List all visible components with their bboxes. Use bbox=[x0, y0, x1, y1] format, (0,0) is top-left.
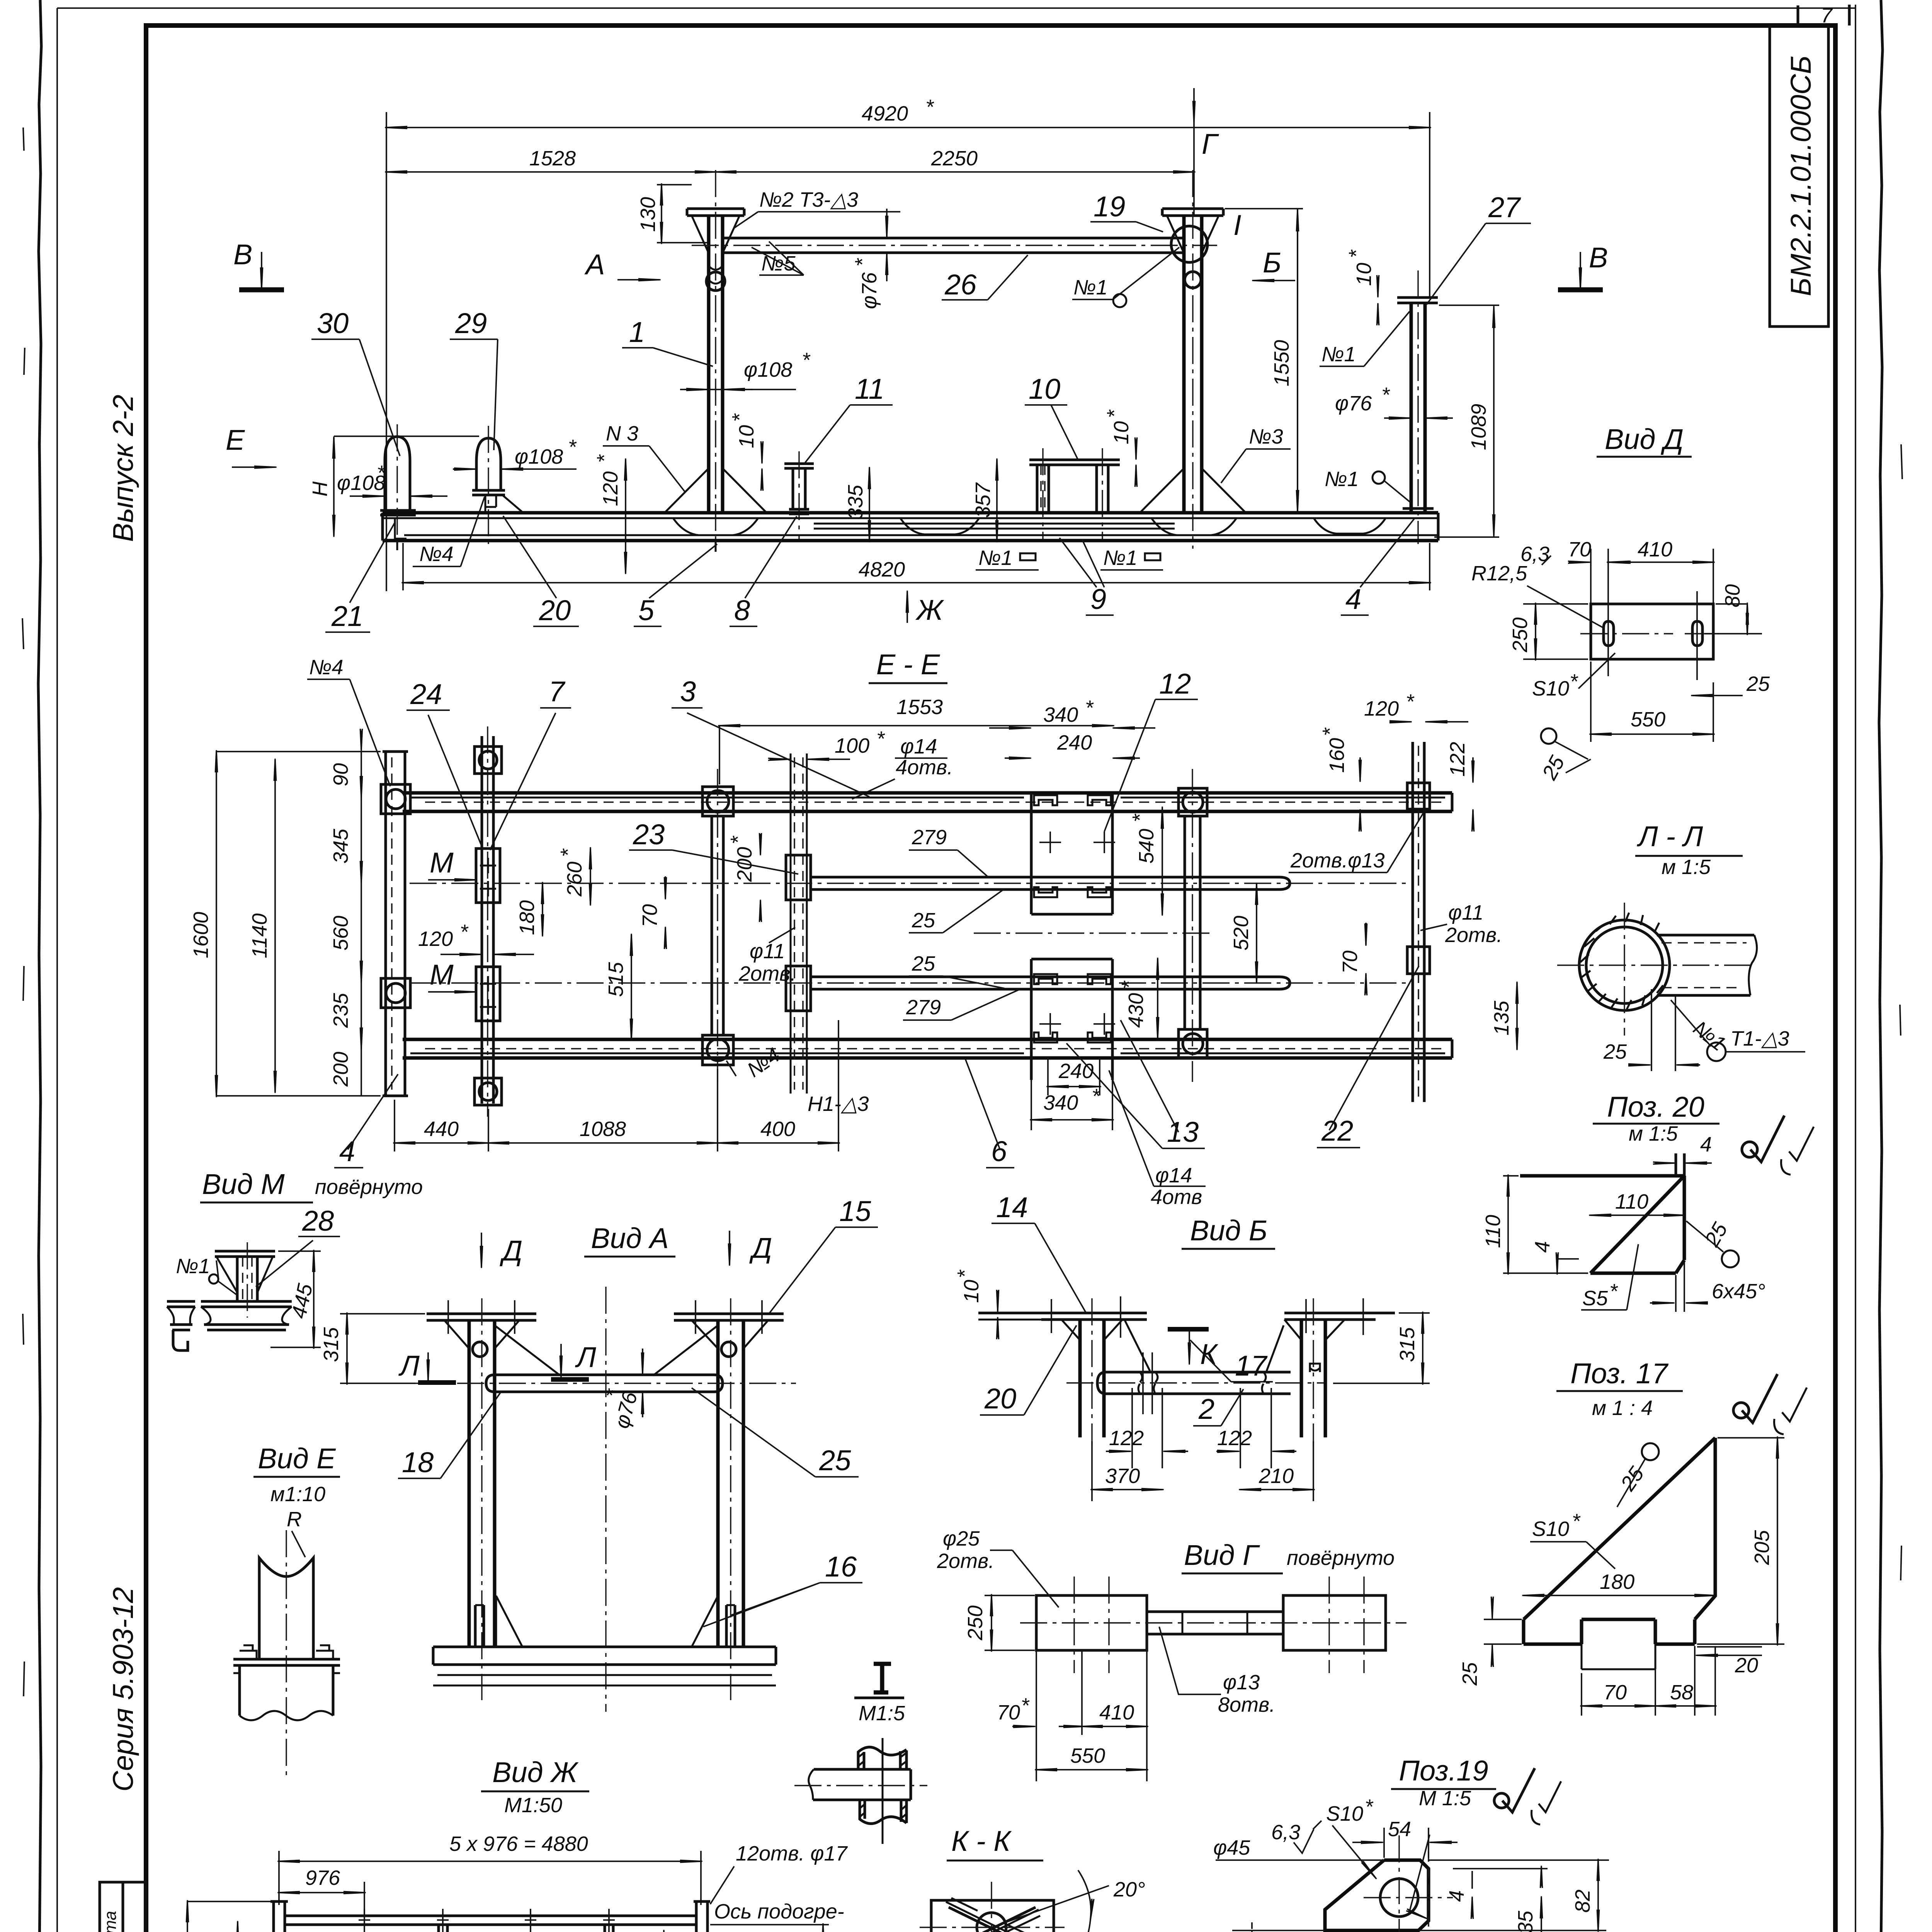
svg-text:2250: 2250 bbox=[931, 147, 978, 170]
rail under bracket bbox=[201, 1301, 292, 1330]
svg-text:240: 240 bbox=[1057, 731, 1092, 754]
lower tube with wavy break bbox=[240, 1665, 333, 1716]
svg-text:18: 18 bbox=[402, 1446, 434, 1478]
post stiffeners bbox=[475, 1605, 735, 1647]
svg-text:Л: Л bbox=[575, 1341, 596, 1373]
svg-text:315: 315 bbox=[320, 1327, 343, 1362]
svg-text:10: 10 bbox=[735, 425, 758, 448]
left margin stamp boxes bbox=[100, 1882, 146, 1932]
left dim 1140 bbox=[274, 760, 276, 1092]
item 27 post flange bbox=[1397, 298, 1438, 303]
right post flange bbox=[1162, 209, 1223, 216]
svg-text:*: * bbox=[1406, 690, 1415, 713]
svg-text:Серия 5.903-12: Серия 5.903-12 bbox=[107, 1587, 139, 1791]
dim 20 bbox=[1697, 1646, 1762, 1648]
bar necks bbox=[1138, 1372, 1266, 1394]
upper pipe walls hatched bbox=[858, 1750, 906, 1769]
item 27 post bbox=[1411, 303, 1425, 513]
svg-text:560: 560 bbox=[329, 916, 352, 951]
connecting bar bbox=[1147, 1612, 1283, 1634]
svg-text:*: * bbox=[1103, 409, 1126, 418]
svg-text:S10: S10 bbox=[1532, 677, 1569, 700]
tie rod clamp blocks M bbox=[476, 849, 500, 903]
svg-text:550: 550 bbox=[1631, 708, 1665, 731]
svg-text:70: 70 bbox=[1568, 538, 1591, 561]
crossing studs bbox=[949, 1907, 1036, 1932]
slots bbox=[1604, 621, 1702, 646]
svg-text:4: 4 bbox=[1445, 1890, 1468, 1902]
svg-text:φ25: φ25 bbox=[943, 1527, 980, 1550]
svg-text:S10: S10 bbox=[1326, 1802, 1363, 1825]
roughness marks bbox=[1750, 1116, 1784, 1162]
bonnet item 30 bbox=[385, 437, 410, 510]
bracket top plate bbox=[215, 1251, 275, 1257]
svg-text:15: 15 bbox=[839, 1195, 871, 1227]
svg-text:4920: 4920 bbox=[862, 102, 908, 125]
svg-text:*: * bbox=[953, 1269, 976, 1278]
svg-text:410: 410 bbox=[1099, 1701, 1134, 1724]
svg-text:29: 29 bbox=[455, 307, 487, 339]
svg-text:φ108: φ108 bbox=[744, 358, 792, 381]
sheet number box top right bbox=[1798, 5, 1849, 26]
dim H bbox=[334, 435, 479, 437]
svg-text:1: 1 bbox=[629, 316, 645, 348]
scan edge left wavy line bbox=[38, 0, 41, 1932]
lower fork plate (item 13) bbox=[1031, 959, 1112, 1080]
svg-text:20: 20 bbox=[539, 594, 571, 626]
svg-text:φ14: φ14 bbox=[1155, 1164, 1192, 1187]
dim 1550 bbox=[1225, 209, 1303, 513]
hole bbox=[1380, 1879, 1418, 1917]
svg-text:2отв.φ13: 2отв.φ13 bbox=[1290, 849, 1385, 872]
gusset plate bbox=[1524, 1438, 1715, 1644]
svg-text:25: 25 bbox=[912, 909, 935, 932]
svg-text:φ11: φ11 bbox=[1448, 901, 1483, 924]
svg-text:100: 100 bbox=[835, 734, 869, 757]
svg-text:1528: 1528 bbox=[529, 147, 576, 170]
svg-text:70: 70 bbox=[638, 904, 662, 927]
dim 82 bbox=[1597, 1860, 1599, 1930]
gussets at right post base bbox=[1140, 468, 1246, 513]
svg-text:вателя: вателя bbox=[714, 1925, 787, 1932]
svg-text:10: 10 bbox=[960, 1280, 983, 1303]
svg-text:φ13: φ13 bbox=[1223, 1671, 1260, 1694]
dims 70* 410 550 bbox=[1036, 1634, 1147, 1781]
svg-text:5 х 976 = 4880: 5 х 976 = 4880 bbox=[449, 1832, 588, 1855]
svg-text:*: * bbox=[1085, 696, 1094, 719]
dim 1089 bbox=[1434, 305, 1499, 537]
dim 1088 bbox=[663, 1931, 665, 1932]
svg-text:122: 122 bbox=[1109, 1427, 1144, 1450]
right tie rod (item 22) bbox=[1413, 742, 1424, 1102]
svg-text:200: 200 bbox=[329, 1052, 352, 1087]
horizontal tube bbox=[813, 1769, 911, 1800]
svg-text:φ11: φ11 bbox=[750, 940, 785, 963]
item 5 vertical bbox=[1185, 816, 1200, 1029]
svg-text:№4: №4 bbox=[419, 543, 454, 566]
left post (item 1) bbox=[709, 216, 723, 513]
svg-text:120: 120 bbox=[599, 471, 622, 506]
svg-text:6х45°: 6х45° bbox=[1712, 1280, 1765, 1303]
svg-text:180: 180 bbox=[515, 900, 539, 935]
svg-text:430: 430 bbox=[1124, 993, 1148, 1028]
right post tube junction circles bbox=[1171, 226, 1207, 262]
svg-text:2отв.: 2отв. bbox=[738, 962, 796, 985]
svg-text:10: 10 bbox=[1352, 263, 1376, 286]
svg-text:Ось подогре-: Ось подогре- bbox=[714, 1900, 844, 1923]
svg-text:550: 550 bbox=[1070, 1744, 1105, 1767]
crosshair bbox=[1557, 903, 1750, 1036]
svg-text:Ж: Ж bbox=[915, 594, 944, 626]
svg-text:976: 976 bbox=[305, 1866, 340, 1889]
svg-text:12отв. φ17: 12отв. φ17 bbox=[736, 1842, 848, 1865]
dim 335 bbox=[869, 468, 870, 541]
left dim 1600 bbox=[216, 752, 217, 1096]
top rail (item 3) bbox=[403, 793, 1452, 811]
svg-text:28: 28 bbox=[302, 1205, 334, 1237]
left flange bbox=[427, 1314, 536, 1320]
svg-text:122: 122 bbox=[1446, 742, 1469, 777]
svg-text:S5: S5 bbox=[1582, 1287, 1608, 1310]
svg-text:М 1:5: М 1:5 bbox=[1419, 1787, 1471, 1810]
dim 2250 bbox=[716, 171, 1194, 173]
svg-text:4: 4 bbox=[1345, 583, 1361, 615]
svg-text:В: В bbox=[1589, 241, 1608, 274]
svg-text:повёрнуто: повёрнуто bbox=[1287, 1546, 1395, 1570]
mark Ж bbox=[906, 592, 908, 623]
svg-text:279: 279 bbox=[912, 826, 947, 849]
svg-text:К - К: К - К bbox=[951, 1825, 1012, 1857]
big gussets to tube bbox=[495, 1325, 718, 1376]
svg-text:М: М bbox=[430, 847, 454, 879]
base plate bbox=[433, 1647, 776, 1665]
left flange bbox=[978, 1313, 1147, 1320]
svg-text:25: 25 bbox=[1458, 1662, 1481, 1686]
upper heater tubes bbox=[811, 877, 1290, 889]
left cross channel (item 4) bbox=[383, 752, 408, 1096]
svg-text:Вид Б: Вид Б bbox=[1190, 1214, 1267, 1247]
svg-text:250: 250 bbox=[1509, 617, 1532, 653]
svg-text:*: * bbox=[728, 413, 751, 422]
svg-text:*: * bbox=[460, 920, 469, 944]
blocks item 23 bbox=[786, 855, 811, 900]
svg-text:82: 82 bbox=[1571, 1889, 1594, 1913]
svg-text:*: * bbox=[1345, 249, 1368, 258]
svg-text:27: 27 bbox=[1488, 191, 1521, 223]
svg-text:№1: №1 bbox=[1321, 343, 1356, 366]
centerlines bbox=[1020, 1622, 1406, 1623]
tube entering from right bbox=[1657, 935, 1754, 995]
svg-text:20: 20 bbox=[1735, 1654, 1758, 1677]
svg-text:110: 110 bbox=[1615, 1190, 1648, 1213]
crosshair bbox=[920, 1882, 1065, 1932]
left rail stub bbox=[167, 1301, 195, 1330]
svg-text:520: 520 bbox=[1230, 916, 1253, 951]
svg-text:φ45: φ45 bbox=[1213, 1836, 1250, 1859]
svg-text:Поз.19: Поз.19 bbox=[1399, 1755, 1488, 1787]
scan left tick artifacts bbox=[22, 128, 25, 1932]
right post bbox=[1301, 1320, 1325, 1437]
plate bbox=[1520, 1176, 1684, 1273]
flange gussets bbox=[444, 1320, 768, 1349]
svg-text:Д: Д bbox=[500, 1235, 522, 1267]
svg-text:№1: №1 bbox=[1325, 468, 1359, 491]
svg-text:22: 22 bbox=[1321, 1115, 1353, 1147]
svg-text:235: 235 bbox=[329, 993, 352, 1028]
bottom rail bbox=[403, 1039, 1452, 1058]
small weld symbol on bar bbox=[1310, 1364, 1320, 1372]
svg-text:70: 70 bbox=[997, 1701, 1020, 1724]
left flange plate bbox=[270, 1901, 288, 1932]
svg-text:250: 250 bbox=[964, 1605, 987, 1641]
svg-text:м1:10: м1:10 bbox=[270, 1483, 325, 1506]
svg-text:410: 410 bbox=[1638, 538, 1672, 561]
svg-text:21: 21 bbox=[331, 600, 363, 632]
left channel pads with holes bbox=[381, 784, 410, 814]
scan edge right wavy line bbox=[1879, 0, 1883, 1932]
svg-text:315: 315 bbox=[1396, 1327, 1419, 1362]
lower heater tubes bbox=[811, 977, 1290, 989]
svg-text:10: 10 bbox=[1029, 373, 1060, 405]
svg-text:3: 3 bbox=[680, 675, 696, 707]
svg-text:120: 120 bbox=[1364, 697, 1399, 720]
right post bbox=[718, 1320, 743, 1647]
left post break wave bbox=[709, 266, 723, 284]
svg-text:440: 440 bbox=[424, 1117, 459, 1141]
svg-text:Вид Ж: Вид Ж bbox=[492, 1756, 579, 1788]
svg-text:N 3: N 3 bbox=[606, 422, 638, 445]
svg-text:14: 14 bbox=[996, 1191, 1028, 1223]
svg-text:*: * bbox=[1117, 980, 1141, 989]
crosshairs bbox=[1364, 1835, 1453, 1932]
svg-text:Г: Г bbox=[1202, 128, 1219, 160]
svg-text:*: * bbox=[1318, 727, 1342, 736]
svg-text:№4: №4 bbox=[309, 656, 344, 679]
dim 180 bbox=[1524, 1595, 1715, 1596]
svg-text:180: 180 bbox=[1600, 1570, 1634, 1594]
dim 35 right bbox=[1418, 1869, 1548, 1932]
svg-text:110: 110 bbox=[1481, 1215, 1505, 1248]
document number strip (rotated) bbox=[1770, 26, 1828, 327]
svg-text:5: 5 bbox=[638, 594, 655, 626]
dim 445 bbox=[270, 1251, 321, 1347]
svg-text:54: 54 bbox=[1388, 1818, 1411, 1841]
left post flange bbox=[687, 209, 744, 216]
svg-text:повёрнуто: повёрнуто bbox=[315, 1175, 423, 1199]
bracket gusset bbox=[216, 1257, 273, 1293]
right post bbox=[1184, 216, 1202, 513]
dim 110 inner bbox=[1590, 1214, 1684, 1216]
rail top lines bbox=[383, 511, 1438, 515]
svg-text:№1: №1 bbox=[1103, 546, 1138, 570]
svg-text:S10: S10 bbox=[1532, 1517, 1569, 1541]
svg-text:М1:50: М1:50 bbox=[504, 1794, 562, 1817]
rail bottom lines bbox=[404, 534, 1438, 536]
svg-text:*: * bbox=[568, 435, 577, 459]
svg-text:1089: 1089 bbox=[1467, 404, 1490, 450]
rail ends bbox=[383, 513, 1438, 541]
svg-text:Т1-△3: Т1-△3 bbox=[1730, 1027, 1789, 1050]
section mark Г bbox=[1193, 88, 1195, 122]
ring hatch bbox=[1580, 913, 1663, 1009]
svg-text:4отв: 4отв bbox=[1151, 1185, 1202, 1209]
dim 4920* bbox=[386, 127, 1430, 128]
svg-text:25: 25 bbox=[819, 1444, 851, 1476]
svg-text:φ76: φ76 bbox=[1335, 392, 1372, 415]
stub item 11 bbox=[784, 464, 814, 468]
svg-text:2отв.: 2отв. bbox=[937, 1549, 994, 1573]
svg-text:*: * bbox=[1128, 813, 1151, 822]
lower pipe walls hatched bbox=[860, 1800, 906, 1823]
mark I bbox=[874, 1664, 891, 1692]
svg-text:30: 30 bbox=[317, 307, 349, 339]
dim 130 bbox=[661, 185, 662, 243]
tie rod top washer bbox=[474, 747, 502, 774]
roughness marks bbox=[1742, 1374, 1777, 1423]
svg-text:*: * bbox=[1570, 670, 1578, 693]
dim 315 right bbox=[1333, 1313, 1430, 1383]
top chord bbox=[285, 1916, 696, 1925]
dim 1140 bbox=[710, 1925, 829, 1932]
svg-text:122: 122 bbox=[1217, 1427, 1252, 1450]
svg-text:*: * bbox=[1021, 1694, 1030, 1717]
svg-text:Вид Е: Вид Е bbox=[258, 1442, 336, 1475]
svg-text:1550: 1550 bbox=[1270, 340, 1293, 386]
dim 205 bbox=[1697, 1438, 1784, 1644]
cross tube bbox=[486, 1375, 723, 1392]
svg-text:4отв.: 4отв. bbox=[896, 756, 953, 779]
svg-text:8: 8 bbox=[734, 594, 750, 626]
svg-text:4: 4 bbox=[1700, 1133, 1712, 1156]
svg-text:135: 135 bbox=[1490, 1000, 1513, 1036]
stub item 10 table bbox=[1029, 460, 1120, 465]
pipe ring bbox=[1579, 920, 1670, 1010]
dim 25 left bbox=[1484, 1619, 1522, 1644]
bolt heads bbox=[240, 1645, 333, 1659]
flange tick marks bbox=[448, 1300, 762, 1334]
svg-text:13: 13 bbox=[1167, 1116, 1199, 1148]
svg-text:φ108: φ108 bbox=[515, 445, 563, 468]
svg-text:Подп. и дата: Подп. и дата bbox=[101, 1911, 120, 1932]
svg-text:200: 200 bbox=[733, 847, 756, 882]
svg-text:*: * bbox=[925, 95, 934, 119]
roughness bbox=[1502, 1768, 1535, 1812]
svg-text:Б: Б bbox=[1263, 247, 1281, 279]
flange ticks bbox=[1051, 1296, 1121, 1338]
К marks bbox=[1168, 1327, 1209, 1332]
svg-text:24: 24 bbox=[410, 678, 442, 710]
dims 370 210 bbox=[1092, 1489, 1162, 1490]
bottom dims 440 1088 400 bbox=[395, 1020, 838, 1151]
svg-text:φ14: φ14 bbox=[900, 735, 937, 758]
gussets bbox=[1061, 1320, 1150, 1371]
25 circle leader bbox=[1642, 1443, 1659, 1460]
svg-text:130: 130 bbox=[636, 197, 660, 232]
svg-text:Вид М: Вид М bbox=[202, 1168, 285, 1200]
svg-text:2: 2 bbox=[1198, 1393, 1214, 1425]
centerline bbox=[247, 1242, 248, 1318]
svg-text:26: 26 bbox=[944, 269, 977, 301]
svg-text:11: 11 bbox=[855, 373, 884, 405]
svg-text:I: I bbox=[1233, 209, 1242, 241]
svg-text:№2 Т3-△3: №2 Т3-△3 bbox=[759, 188, 858, 211]
svg-text:Выпуск 2-2: Выпуск 2-2 bbox=[107, 395, 139, 542]
svg-text:*: * bbox=[1572, 1510, 1581, 1533]
svg-text:№3: №3 bbox=[1249, 425, 1283, 448]
svg-text:Д: Д bbox=[749, 1232, 772, 1264]
cross tube item 26 bbox=[723, 238, 1184, 253]
svg-text:160: 160 bbox=[1325, 738, 1349, 773]
dim 250 bbox=[985, 1595, 1035, 1650]
right flange bbox=[1284, 1313, 1395, 1320]
dims 70 58 bbox=[1582, 1705, 1655, 1707]
svg-text:25: 25 bbox=[1603, 1040, 1627, 1063]
rail hanger hooks bbox=[395, 518, 716, 552]
svg-text:90: 90 bbox=[329, 763, 352, 786]
angle 20 deg bbox=[992, 1886, 1109, 1927]
svg-text:540: 540 bbox=[1135, 829, 1158, 864]
svg-text:70: 70 bbox=[1604, 1681, 1627, 1704]
center circle bbox=[977, 1913, 1006, 1932]
svg-text:4: 4 bbox=[1531, 1241, 1554, 1253]
svg-text:23: 23 bbox=[633, 818, 665, 850]
svg-text:370: 370 bbox=[1105, 1464, 1140, 1488]
left post bbox=[469, 1320, 495, 1647]
mid axis bbox=[974, 932, 1209, 934]
svg-text:*: * bbox=[802, 349, 811, 372]
dim 4820 bbox=[403, 543, 1430, 590]
svg-text:240: 240 bbox=[1058, 1060, 1094, 1083]
svg-text:12: 12 bbox=[1159, 668, 1191, 700]
bonnet item 29 bbox=[476, 438, 501, 490]
left post centerline bbox=[715, 170, 716, 549]
centerlines bbox=[882, 1738, 884, 1844]
svg-text:9: 9 bbox=[1090, 583, 1106, 615]
beam cross lines bbox=[233, 1659, 340, 1665]
item 27 centerline bbox=[1417, 270, 1418, 544]
svg-text:R: R bbox=[287, 1508, 302, 1531]
post circles bbox=[473, 1342, 487, 1357]
plate bbox=[1591, 604, 1713, 659]
plate outline bbox=[1325, 1860, 1429, 1930]
svg-text:Вид Д: Вид Д bbox=[1605, 423, 1684, 455]
svg-text:№1: №1 bbox=[978, 546, 1013, 570]
svg-text:φ76: φ76 bbox=[858, 272, 881, 309]
svg-text:8отв.: 8отв. bbox=[1218, 1693, 1275, 1716]
svg-text:58: 58 bbox=[1670, 1681, 1693, 1704]
svg-text:120: 120 bbox=[418, 927, 453, 951]
svg-text:1088: 1088 bbox=[580, 1117, 626, 1141]
svg-text:340: 340 bbox=[1043, 703, 1078, 726]
svg-text:А: А bbox=[584, 248, 605, 281]
left post hole circle bbox=[706, 272, 725, 291]
plate rect bbox=[931, 1900, 1054, 1932]
svg-text:В: В bbox=[233, 238, 252, 270]
svg-text:м 1:5: м 1:5 bbox=[1629, 1122, 1678, 1145]
svg-text:*: * bbox=[851, 258, 874, 267]
dim 315 bbox=[340, 1314, 425, 1383]
dim 120* bbox=[625, 460, 626, 573]
svg-text:1600: 1600 bbox=[189, 912, 213, 958]
left block bbox=[1036, 1595, 1147, 1650]
svg-text:20: 20 bbox=[984, 1383, 1016, 1415]
tick crosses on chords bbox=[359, 1909, 615, 1932]
left small dims column bbox=[361, 752, 362, 1096]
svg-text:м 1:5: м 1:5 bbox=[1662, 855, 1711, 879]
gussets at left post base bbox=[665, 468, 767, 513]
svg-text:*: * bbox=[1381, 383, 1390, 406]
svg-text:70: 70 bbox=[1338, 951, 1362, 974]
